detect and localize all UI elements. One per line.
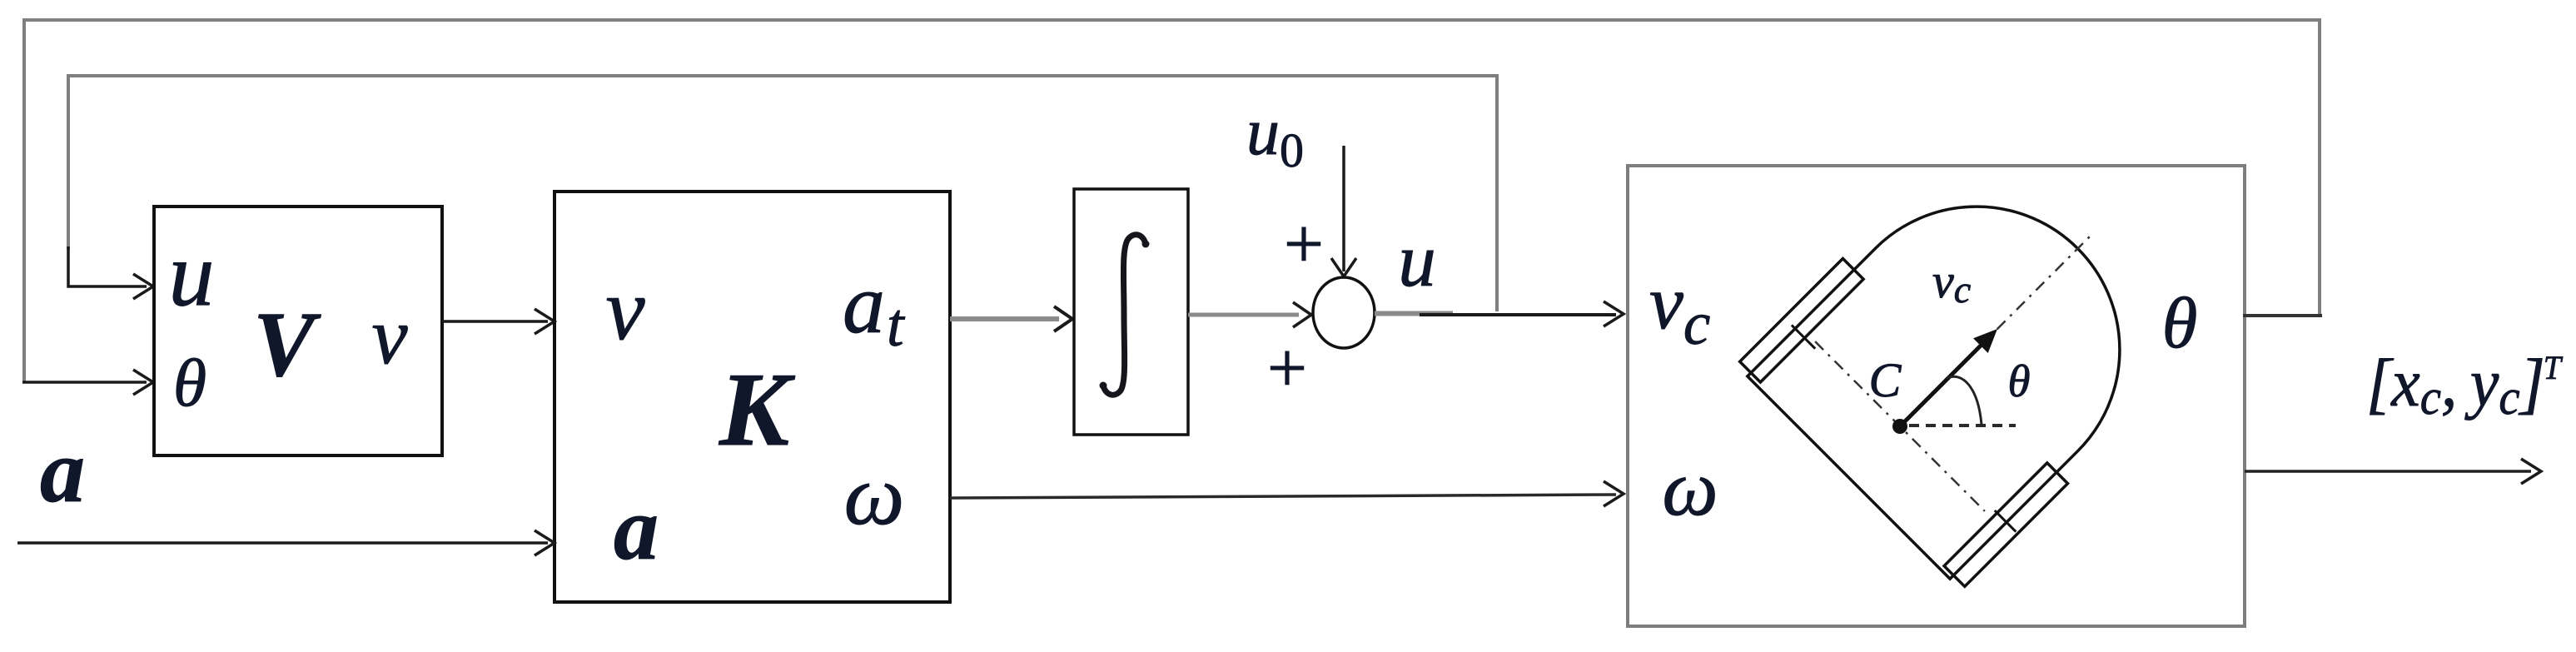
svg-text:ω: ω (1662, 444, 1718, 532)
svg-text:u: u (169, 223, 215, 325)
arrowhead of u0 arrow (1331, 258, 1356, 276)
right wheel tick (1995, 510, 2016, 531)
robot drawing (rotated 45deg) (1736, 120, 2206, 590)
svg-text:K: K (719, 352, 796, 468)
wire: u into plant (black segment) (1420, 313, 1616, 316)
wire: u0 arrow down into summing junction (1342, 146, 1345, 271)
svg-text:v: v (371, 291, 408, 381)
svg-text:ω: ω (844, 448, 905, 543)
block K (554, 192, 950, 602)
robot body (1748, 147, 2179, 579)
heading dash-dot line (1900, 232, 2094, 426)
wire: [xc,yc]T output (2245, 470, 2531, 473)
svg-text:θ: θ (2007, 356, 2030, 406)
summing junction circle (1313, 277, 1375, 348)
svg-text:a: a (614, 480, 659, 579)
block V (154, 207, 442, 455)
svg-text:θ: θ (173, 345, 206, 421)
svg-text:a: a (40, 422, 85, 521)
wire: a_t from K to integrator (950, 316, 1059, 321)
wire: u feedback lower segment into V block (68, 246, 147, 286)
arrowhead into theta input of V (133, 370, 153, 395)
arrowhead of output (2521, 459, 2541, 484)
svg-text:θ: θ (2162, 282, 2198, 363)
arrowhead into summing junction (1293, 302, 1311, 327)
C dot (1889, 416, 1910, 436)
svg-text:u: u (1398, 218, 1436, 302)
wire: v from V to K (442, 320, 548, 323)
svg-text:[xc, yc]T: [xc, yc]T (2366, 345, 2564, 425)
axle dash-dot line (1815, 341, 1985, 511)
arrowhead into u input of V (133, 274, 153, 299)
arrowhead into integrator (1054, 306, 1072, 331)
left wheel tick (1792, 325, 1815, 348)
block plant (robot box) (1628, 166, 2245, 626)
theta angle arc (1947, 376, 1982, 425)
robot right wheel (1944, 463, 2067, 586)
label integral sign (1103, 235, 1146, 395)
svg-text:C: C (1869, 353, 1902, 407)
wire: a input into K (17, 541, 548, 545)
svg-text:+: + (1267, 329, 1307, 407)
arrowhead into v input of K (535, 309, 554, 334)
svg-text:+: + (1284, 205, 1324, 283)
svg-text:V: V (253, 294, 321, 396)
dashed horizontal reference line from C (1909, 424, 2016, 427)
arrowhead into a input of K (535, 530, 554, 555)
wire: theta output from plant to outer loop (2243, 314, 2322, 317)
arrowhead into v_c input of plant (1604, 301, 1624, 326)
wire: theta feedback into V block (22, 381, 147, 384)
v_c arrow (1900, 337, 1989, 426)
wire: omega from K to plant (950, 495, 1616, 498)
wire: u from sum (gray segment) (1375, 311, 1453, 316)
svg-text:v: v (605, 261, 645, 358)
robot left wheel (1740, 258, 1863, 381)
block integrator (1074, 189, 1188, 435)
wire: inner u feedback loop (68, 76, 1497, 311)
arrowhead into omega input of plant (1604, 481, 1624, 506)
wire: integrator output to summing junction (1188, 313, 1299, 317)
wire: outer theta feedback loop (top) (24, 20, 2320, 382)
